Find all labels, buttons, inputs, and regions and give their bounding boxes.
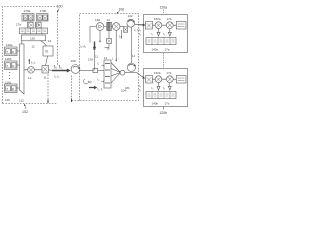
wire from mixer2 down to filterbank — [112, 30, 117, 61]
svg-text:T: T — [6, 87, 8, 91]
block 170a (pair of switches) — [22, 14, 34, 22]
svg-text:f₃: f₃ — [152, 32, 154, 36]
svg-text:120b: 120b — [160, 111, 168, 115]
modulator box — [42, 66, 49, 74]
wire down to junction — [94, 50, 96, 70]
svg-text:12: 12 — [48, 39, 52, 43]
wire matrix to antenna mux — [21, 41, 23, 45]
svg-text:170a: 170a — [24, 9, 31, 13]
amplifier circle — [96, 23, 104, 31]
svg-text:f₂: f₂ — [98, 78, 100, 82]
mixer (upconverter) — [28, 67, 35, 74]
label f1 f2 above mixer — [28, 59, 35, 65]
svg-text:f₄: f₄ — [163, 86, 165, 90]
svg-text:R: R — [12, 87, 14, 91]
svg-text:f₁, f₂: f₁, f₂ — [98, 87, 103, 91]
fanning wires to combiner — [111, 63, 120, 84]
svg-text:170b: 170b — [40, 9, 47, 13]
arc wire to fo box — [40, 41, 47, 47]
wires chain A — [153, 24, 177, 26]
label 100 with arrow — [57, 5, 63, 13]
wire fo box down to modulator — [46, 56, 48, 66]
svg-text:120: 120 — [30, 37, 35, 41]
small combiner circle — [120, 70, 125, 75]
wire circulator into module — [80, 70, 94, 72]
amplifier box a — [28, 22, 34, 28]
svg-text:f₁ f₂: f₁ f₂ — [31, 61, 36, 65]
svg-text:13: 13 — [89, 80, 92, 84]
label 106 with arrow — [117, 8, 125, 14]
wire circulator2 to right with arrow — [135, 24, 146, 27]
wire to filter bank — [98, 70, 104, 72]
wire combiner to circulator3 — [125, 72, 137, 74]
svg-text:f₂: f₂ — [61, 65, 63, 69]
loop arrow detail — [84, 79, 92, 84]
f labels left of tall box — [98, 62, 104, 83]
svg-text:140a: 140a — [152, 48, 159, 52]
svg-text:14: 14 — [132, 54, 136, 58]
svg-text:11: 11 — [44, 76, 47, 80]
input block B — [146, 76, 153, 84]
input arrow A — [139, 24, 145, 26]
wire filter down through box — [105, 31, 110, 48]
bold rx arrow — [89, 86, 97, 89]
dashed enclosure 130 (middle module) — [80, 14, 139, 101]
wire to RB box with arrow — [137, 73, 145, 79]
svg-text:18b: 18b — [125, 86, 130, 90]
svg-text:17a: 17a — [165, 48, 170, 52]
svg-text:fo: fo — [46, 50, 49, 54]
svg-text:f₃: f₃ — [152, 86, 154, 90]
svg-text:11: 11 — [95, 55, 98, 59]
svg-text:136: 136 — [88, 58, 93, 62]
bold down arrow — [93, 42, 96, 51]
svg-text:f₁, f₂: f₁, f₂ — [54, 75, 59, 79]
input block A — [146, 22, 153, 30]
svg-text:142: 142 — [128, 14, 133, 18]
svg-text:116b: 116b — [5, 57, 12, 61]
svg-text:17b: 17b — [167, 71, 172, 75]
marks f1 f2 above thick arrow — [54, 65, 62, 69]
wire mixer to modulator — [24, 69, 42, 71]
label 120b with leader — [160, 107, 168, 116]
svg-text:R: R — [12, 64, 14, 68]
mixer B2 — [166, 76, 173, 83]
label f1 f2 at input A — [139, 28, 141, 36]
wires between blocks — [104, 26, 124, 28]
svg-text:1: 1 — [112, 57, 114, 61]
dashed boundary near circulator — [72, 76, 80, 101]
output block A — [176, 22, 186, 30]
amplifier box b — [36, 22, 42, 28]
svg-text:102: 102 — [22, 110, 28, 114]
wire amp left and down — [90, 27, 96, 43]
filter bank row — [20, 28, 48, 34]
wires antenna units to mux — [17, 51, 20, 88]
svg-text:f₁+f₂: f₁+f₂ — [81, 45, 86, 49]
svg-text:13: 13 — [107, 18, 111, 22]
svg-text:14: 14 — [119, 35, 123, 39]
svg-text:f₂: f₂ — [139, 88, 141, 92]
circulator — [71, 65, 80, 74]
svg-text:f₁: f₁ — [98, 62, 100, 66]
svg-text:f₁: f₁ — [56, 65, 58, 69]
svg-text:112: 112 — [19, 99, 24, 103]
ADC row B — [146, 92, 176, 99]
thick signal arrow — [52, 69, 71, 73]
ADC row A — [146, 38, 176, 45]
circulator 2 — [127, 19, 135, 27]
wire amp circle down — [99, 30, 101, 43]
wire modulator out — [49, 69, 53, 72]
block 170b (pair of switches) — [37, 14, 49, 22]
svg-text:17b: 17b — [165, 102, 170, 106]
mixer A2 — [166, 22, 173, 29]
svg-text:100: 100 — [57, 5, 63, 9]
receiver box B — [144, 69, 188, 107]
receiver box A — [144, 15, 188, 53]
tick at inner boundary end — [47, 100, 49, 104]
svg-text:152b: 152b — [154, 71, 161, 75]
label 120a with leader — [160, 6, 168, 15]
dashed link between receiver boxes — [163, 53, 165, 68]
circulator 3 — [127, 63, 136, 71]
LO arrows B — [152, 83, 172, 90]
mixer circle — [112, 23, 120, 31]
wires chain B — [153, 78, 177, 80]
local oscillator box fo — [43, 46, 53, 56]
svg-text:152a: 152a — [154, 17, 161, 21]
svg-text:12: 12 — [28, 76, 32, 80]
LO arrows A — [152, 29, 172, 36]
svg-text:T: T — [6, 64, 8, 68]
vertical wire circulator2 to circulator3 — [131, 27, 133, 63]
output block B — [176, 76, 186, 84]
label 102 with arrow at bottom left — [22, 104, 28, 114]
filter block — [107, 22, 112, 30]
tick at circulator boundary end — [71, 99, 73, 103]
antenna mux (tall trapezoid) — [20, 44, 25, 94]
dashed enclosure 102 (left module) — [3, 7, 58, 104]
svg-text:108: 108 — [71, 59, 76, 63]
svg-text:120a: 120a — [160, 6, 168, 10]
svg-text:R: R — [12, 50, 14, 54]
mixer A1 — [155, 22, 162, 29]
svg-text:f₁: f₁ — [139, 28, 141, 32]
small detector box — [107, 39, 112, 44]
svg-text:f₁: f₁ — [139, 84, 141, 88]
label f1 f2 at input B — [139, 84, 141, 92]
small series block on line — [93, 68, 98, 72]
svg-text:17a: 17a — [167, 17, 172, 21]
mixer B1 — [155, 76, 162, 83]
svg-text:17a: 17a — [16, 23, 21, 27]
wire mixer down — [121, 30, 123, 39]
svg-text:f₄: f₄ — [163, 32, 165, 36]
svg-text:116a: 116a — [6, 43, 13, 47]
svg-text:138: 138 — [95, 18, 100, 22]
svg-text:f₂: f₂ — [139, 32, 141, 36]
switch matrix 120 — [22, 35, 46, 41]
svg-text:1b: 1b — [107, 47, 110, 51]
filter bank tall box — [104, 60, 111, 88]
antenna unit 116c — [5, 84, 18, 93]
svg-text:110: 110 — [5, 98, 10, 102]
ellipsis dots — [9, 73, 11, 79]
small coupler box — [124, 27, 128, 32]
svg-text:13: 13 — [104, 56, 107, 60]
svg-text:140b: 140b — [152, 102, 159, 106]
svg-text:T: T — [6, 50, 8, 54]
antenna unit 116a — [5, 47, 18, 56]
svg-text:12: 12 — [32, 45, 36, 49]
antenna unit 116b — [5, 61, 18, 70]
